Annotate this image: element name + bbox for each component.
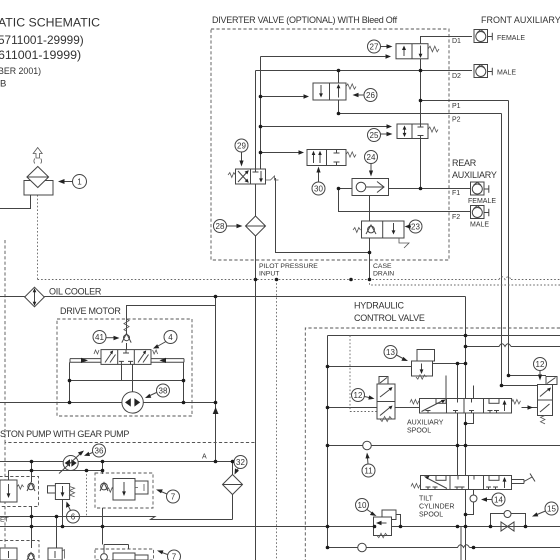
valve 29 (pilot selector): [228, 169, 279, 184]
wire oil cooler line: [0, 296, 466, 298]
valve 26 (2-position solenoid): [299, 83, 356, 100]
label circle 27: [368, 40, 393, 53]
svg-text:AUXILIARY: AUXILIARY: [452, 170, 497, 180]
svg-text:CONTROL VALVE: CONTROL VALVE: [354, 313, 425, 323]
wire valve25 feed: [261, 126, 389, 128]
label circle 38: [145, 384, 170, 398]
wire pump inner feed line: [9, 471, 103, 481]
svg-text:AUXILIARY: AUXILIARY: [407, 420, 444, 427]
svg-text:HYDRAULIC: HYDRAULIC: [354, 301, 405, 311]
valve 10 (relief): [374, 510, 401, 538]
svg-text:P1: P1: [452, 103, 461, 110]
svg-text:12: 12: [354, 391, 363, 400]
pump 36 (variable piston pump): [59, 451, 84, 474]
svg-text:ATIC SCHEMATIC: ATIC SCHEMATIC: [0, 16, 100, 30]
wire P2 drop: [502, 114, 538, 386]
svg-text:OIL COOLER: OIL COOLER: [49, 287, 102, 297]
wire valve29 drain: [276, 178, 370, 253]
svg-text:15: 15: [547, 505, 556, 514]
svg-text:4: 4: [168, 333, 173, 342]
wire F1 line: [339, 188, 471, 190]
wire mid rail: [328, 445, 560, 447]
gear pump group 7 (upper): [95, 473, 153, 508]
svg-text:STON PUMP WITH GEAR PUMP: STON PUMP WITH GEAR PUMP: [0, 429, 129, 439]
svg-text:25: 25: [370, 131, 379, 140]
label circle 12 left: [352, 389, 375, 402]
wire check24-valve23 drop: [369, 196, 371, 280]
control valve dashed enclosure: [305, 328, 560, 560]
wire P1 drop: [509, 101, 547, 376]
svg-text:24: 24: [367, 153, 376, 162]
wire valve27 feed: [261, 56, 388, 58]
svg-text:41: 41: [95, 333, 104, 342]
wire valve4 left drop: [69, 362, 71, 402]
wire top feed line: [328, 335, 560, 337]
svg-text:REAR: REAR: [452, 158, 477, 168]
label circle 15: [532, 502, 558, 517]
label circle 29: [235, 139, 248, 167]
label circle 4: [153, 331, 177, 349]
wire bus A (pilot supply riser): [255, 71, 257, 217]
label circle 32: [234, 456, 247, 475]
check valve 14: [466, 490, 478, 515]
wire tank inlet L: [0, 195, 31, 209]
wire case drain branch (dotted): [370, 280, 560, 286]
wire valve13 left line: [328, 366, 412, 368]
spring aux spool right: [512, 400, 521, 405]
label circle 28: [214, 220, 243, 233]
svg-text:14: 14: [494, 496, 503, 505]
check valve on bottom line: [358, 543, 367, 552]
label circle 26: [353, 89, 378, 102]
relief group (left, cut off): [0, 477, 39, 507]
filter 1 diamond: [27, 167, 49, 188]
lever tilt spool: [512, 474, 536, 484]
wire aux ports up: [457, 364, 459, 399]
label circle 11: [362, 453, 375, 478]
svg-text:23: 23: [411, 223, 420, 232]
junction dots pump: [30, 460, 235, 529]
svg-text:A: A: [202, 454, 207, 461]
wire pilot/case-drain dotted bus with hops: [38, 277, 560, 280]
svg-text:12: 12: [536, 360, 545, 369]
spring over check 41: [124, 319, 129, 331]
valve 12 right (aux solenoid): [538, 377, 558, 424]
pump dashed enclosure: [5, 443, 255, 560]
wire valve26 feed: [261, 96, 305, 98]
svg-text:29: 29: [237, 142, 246, 151]
wire A riser: [215, 297, 217, 462]
wire valve26 drop: [338, 71, 340, 114]
wire pilot drop to pump (dotted): [255, 280, 257, 560]
coupler F2 male: [471, 206, 489, 219]
svg-text:28: 28: [216, 222, 225, 231]
wire valve4 right drop: [183, 362, 185, 402]
spring tilt spool left: [411, 484, 420, 489]
svg-text:D1: D1: [452, 38, 461, 45]
svg-text:MALE: MALE: [497, 70, 516, 77]
wire bus B (second riser): [260, 57, 262, 177]
svg-text:1: 1: [77, 178, 82, 187]
wire aux ports down to rail: [458, 413, 474, 446]
breather arrow: [33, 148, 42, 159]
wire P2 line: [339, 113, 502, 115]
wire filter28 to pilot bus: [255, 236, 257, 280]
motor 38 circle: [122, 392, 143, 413]
filter 32 diamond: [223, 475, 243, 495]
label circle 10: [356, 499, 377, 517]
svg-text:611001-19999): 611001-19999): [0, 48, 81, 62]
left dashed enclosure edge: [4, 240, 6, 442]
svg-text:DIVERTER VALVE (OPTIONAL) WITH: DIVERTER VALVE (OPTIONAL) WITH Bleed Off: [212, 15, 398, 25]
valve 30 (2-position): [299, 150, 357, 166]
wire pump lower rail: [0, 517, 233, 520]
filter 32 drop from A line: [232, 462, 234, 520]
junction dots control valve: [326, 334, 528, 550]
wire D1 line: [421, 37, 473, 44]
label circle 7b: [157, 550, 181, 560]
wire aux pilot risers: [446, 376, 474, 399]
bypass check 15: [491, 511, 526, 532]
wire branch right with hops: [466, 344, 560, 347]
wire valve12L to aux spool w/ spring: [395, 407, 419, 409]
svg-text:TILT: TILT: [419, 496, 434, 503]
wire D2 line: [256, 70, 473, 72]
wire bottom bus full width: [0, 526, 560, 528]
wire A outlet line: [0, 461, 233, 463]
svg-text:5711001-29999): 5711001-29999): [0, 33, 84, 47]
svg-text:P2: P2: [452, 117, 461, 124]
junction dots diverter: [259, 69, 423, 255]
svg-text:30: 30: [314, 185, 323, 194]
wire left drop: [31, 462, 33, 483]
coupler D2 male: [474, 65, 492, 78]
svg-text:CASE: CASE: [373, 263, 392, 270]
tilt cylinder spool valve: [421, 476, 512, 490]
svg-text:BER 2001): BER 2001): [0, 66, 41, 76]
svg-text:ET: ET: [0, 517, 9, 524]
coupler D1 female: [474, 30, 492, 43]
drive motor dashed enclosure: [57, 319, 192, 416]
svg-text:MALE: MALE: [470, 222, 489, 229]
svg-text:26: 26: [366, 91, 375, 100]
svg-text:7: 7: [172, 553, 177, 560]
wire case drain drop to pump (dotted): [276, 280, 278, 560]
svg-text:F2: F2: [452, 214, 460, 221]
svg-text:DRIVE MOTOR: DRIVE MOTOR: [60, 306, 121, 316]
label circle 14: [481, 493, 505, 506]
label circle 36: [84, 444, 106, 457]
svg-text:38: 38: [159, 387, 168, 396]
svg-text:FEMALE: FEMALE: [497, 35, 525, 42]
valve 13 (relief): [412, 350, 435, 380]
svg-text:13: 13: [386, 348, 395, 357]
valve 4 (drive motor spool): [70, 350, 184, 365]
svg-text:SPOOL: SPOOL: [407, 428, 431, 435]
wire port plates: [70, 359, 184, 363]
spring aux spool left: [410, 400, 419, 405]
label circle 23: [405, 220, 423, 233]
check valve 41: [122, 333, 131, 350]
svg-text:CYLINDER: CYLINDER: [419, 504, 454, 511]
wire supply riser: [465, 297, 467, 560]
flow arrow on A riser: [213, 407, 219, 414]
svg-text:DRAIN: DRAIN: [373, 271, 394, 278]
svg-text:27: 27: [370, 43, 379, 52]
wire rail to valve12L: [328, 407, 378, 409]
wire tank breather drop (dotted): [37, 195, 39, 280]
svg-text:FEMALE: FEMALE: [468, 198, 496, 205]
valve 23 (bleed-off valve): [353, 221, 409, 248]
junction dots drive motor: [68, 295, 218, 405]
label circle 1: [58, 175, 87, 189]
wire valve4 to motor: [132, 364, 134, 391]
wire motor line right: [143, 402, 215, 404]
tank rectangle: [24, 181, 53, 196]
svg-text:PILOT PRESSURE: PILOT PRESSURE: [259, 263, 318, 270]
wire valve13 right line: [433, 363, 466, 365]
wire valve30 feed: [261, 152, 300, 154]
valve 27 (2-position solenoid): [380, 44, 439, 59]
valve 12 left (aux solenoid): [377, 377, 395, 422]
svg-text:32: 32: [236, 458, 245, 467]
filter 28 (pilot filter diamond): [246, 216, 266, 236]
svg-text:7: 7: [171, 493, 176, 502]
svg-text:36: 36: [95, 447, 104, 456]
valve 6 (relief): [48, 484, 75, 500]
label circle 41: [93, 331, 120, 344]
label circle 12 right: [534, 358, 547, 381]
wire motor upper bus: [70, 380, 184, 382]
wire left rail: [327, 336, 329, 548]
label circle 7 (upper): [156, 489, 180, 503]
wire aux spool right to valve12R: [522, 407, 538, 409]
wire right drop: [102, 462, 104, 475]
coupler F1 female: [471, 182, 489, 195]
wire tilt ports up: [457, 446, 459, 476]
wire row2 drops: [32, 507, 103, 551]
wire valve6 bottom drop: [62, 500, 64, 527]
oil cooler diamond: [25, 287, 45, 307]
valve 25 (2-position solenoid): [387, 124, 439, 139]
label circle 24: [365, 151, 378, 177]
diverter valve dashed enclosure: [211, 29, 449, 260]
svg-text:F1: F1: [452, 190, 460, 197]
svg-text:D2: D2: [452, 73, 461, 80]
label circle 6: [66, 502, 80, 524]
relief group row2 (cut off): [0, 541, 39, 560]
svg-text:INPUT: INPUT: [259, 271, 279, 278]
valve 6b row2: [48, 548, 64, 560]
wire F2 line: [339, 189, 471, 212]
svg-text:10: 10: [358, 501, 367, 510]
junction dots pilot band: [254, 278, 372, 282]
wire valve4 mid port: [121, 364, 123, 380]
svg-text:B: B: [0, 79, 6, 90]
pilot dashes valve12L: [350, 336, 378, 412]
wire P1 line: [421, 100, 509, 102]
label circle 13: [384, 346, 408, 362]
svg-text:11: 11: [364, 467, 373, 476]
svg-text:FRONT AUXILIARY: FRONT AUXILIARY: [481, 15, 560, 25]
gear pump group 7b row2: [95, 545, 154, 560]
check valve 24: [352, 179, 389, 196]
wire riser D1-F1 drop: [420, 37, 422, 189]
check valve 11: [363, 441, 372, 450]
wire motor feed from A riser: [127, 306, 216, 334]
wire bottom line with hop: [328, 545, 560, 548]
auxiliary spool valve: [420, 399, 512, 414]
wire motor line left: [0, 402, 122, 404]
svg-text:SPOOL: SPOOL: [419, 512, 443, 519]
wire valve6 pilot dashes: [86, 471, 88, 517]
label circle 30: [312, 167, 325, 196]
label circle 25: [368, 129, 393, 142]
wire work port drop: [460, 527, 462, 560]
